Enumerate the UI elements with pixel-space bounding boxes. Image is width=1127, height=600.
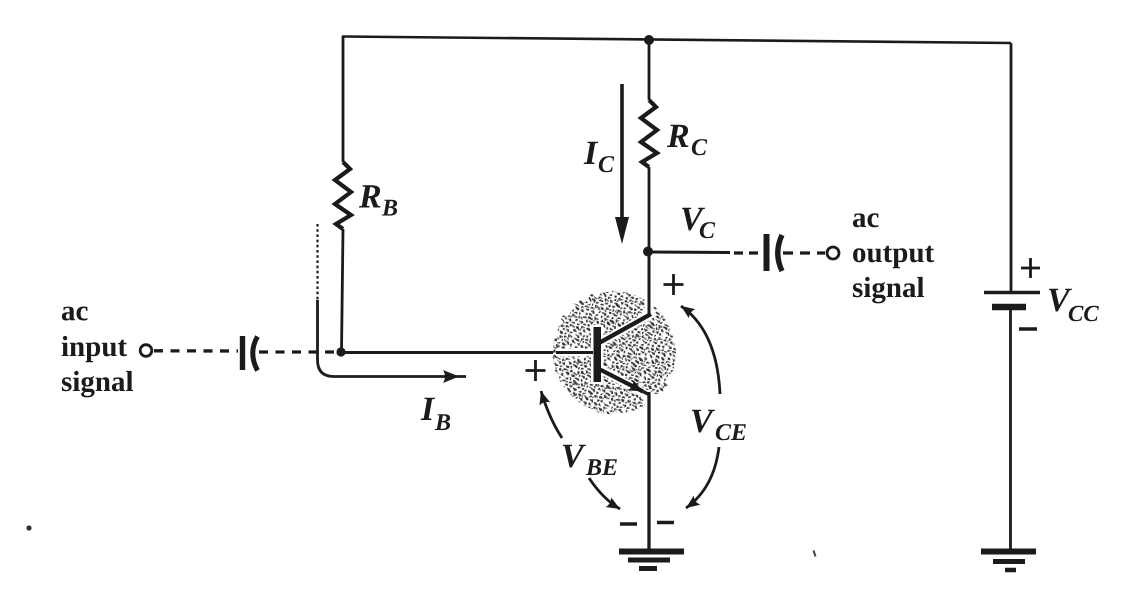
arrow VBE lower curved (589, 478, 620, 509)
plus sign at battery (1021, 258, 1040, 278)
arrow IC (620, 84, 624, 218)
label RB (359, 185, 380, 207)
arrow VBE upper curved (541, 391, 562, 438)
capacitor C2 curved plate (778, 235, 782, 271)
wire: VC node to output capacitor (650, 251, 730, 254)
minus sign at battery (1019, 327, 1037, 331)
label VCC (1049, 289, 1072, 312)
wire: emitter vertical down to ground (647, 394, 650, 549)
label VCE (692, 410, 715, 433)
ground symbol (emitter) (619, 549, 684, 555)
wire: battery to ground (1009, 310, 1012, 549)
terminal: ac input open circle (140, 345, 152, 357)
transistor Q1 collector lead (599, 314, 651, 343)
label VBE (563, 445, 586, 468)
resistor RB (335, 162, 351, 229)
label RC (667, 125, 688, 147)
transistor Q1 shaded circle (554, 292, 676, 414)
wire: collector vertical up to VC node (648, 252, 651, 316)
minus dash right of emitter (657, 521, 674, 525)
label VC (682, 208, 705, 231)
transistor Q1 emitter lead with arrow (599, 369, 643, 392)
wire: VC node up through RC to top rail (648, 40, 651, 100)
capacitor C2 (output coupling) left plate (764, 234, 770, 271)
wire: base wire segment inside circle (556, 351, 593, 354)
wire: collector vertical segment inside circle (648, 290, 651, 316)
wire: RC bottom to VC node (648, 167, 651, 252)
battery VCC positive plate (984, 291, 1040, 294)
terminal: ac output open circle (827, 247, 839, 259)
plus sign at collector (664, 274, 684, 295)
arrow VCE upper curved (681, 306, 720, 394)
wire: RB bottom to base node (342, 229, 344, 352)
label IC (584, 142, 599, 164)
arrow VCE lower curved (686, 447, 719, 508)
arrow IB (hooked current arrow) (316, 224, 318, 300)
transistor Q1 white halos under symbol (556, 291, 655, 414)
text: ac output signal (853, 213, 879, 227)
plus sign at base (526, 360, 546, 381)
wire: dashed from capacitor C2 to output terminal (783, 251, 825, 254)
resistor RC (641, 100, 657, 167)
wire: dashes before output capacitor (734, 251, 762, 254)
wire: dashed from input terminal to capacitor (154, 349, 238, 353)
stray mark: small dot lower-left (26, 525, 31, 530)
node: base junction dot (336, 347, 345, 356)
node: junction of top rail and RC branch (644, 35, 654, 45)
wire: base node to transistor base (341, 351, 593, 354)
wire: right vertical from top rail to battery (1010, 43, 1013, 291)
ground symbol (VCC) (981, 549, 1036, 555)
wire: top horizontal rail (343, 37, 1011, 44)
capacitor C1 curved plate (253, 337, 258, 371)
wire: dashed from capacitor C1 to base node (259, 350, 337, 353)
transistor Q1 base bar (594, 327, 602, 382)
battery VCC negative plate (992, 304, 1026, 311)
label IB (421, 398, 436, 420)
wire: left vertical from top rail to RB top (342, 36, 345, 163)
minus dash left of emitter (620, 522, 637, 526)
text: ac input signal (62, 307, 88, 321)
stray mark: small tick near bottom centre (814, 551, 816, 557)
node: VC junction dot (643, 247, 653, 257)
wire: emitter vertical segment inside circle (648, 392, 651, 415)
capacitor C1 (input coupling) left plate (240, 336, 245, 370)
